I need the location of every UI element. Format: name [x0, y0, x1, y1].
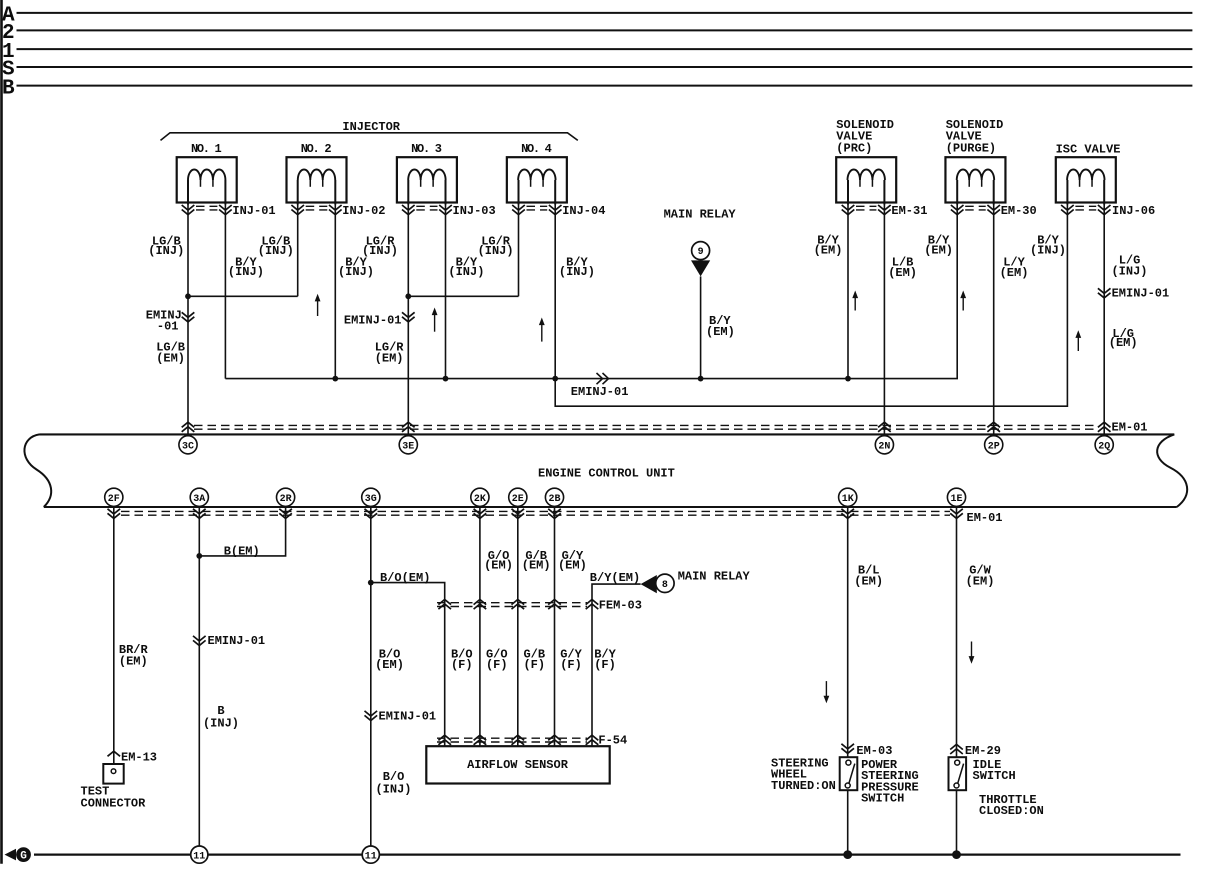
wire B/Y injector3 to bus: [445, 205, 447, 379]
connector INJ-06: [1061, 205, 1074, 210]
svg-text:2E: 2E: [512, 494, 524, 505]
main relay source circle 9: [692, 242, 710, 260]
connector EMINJ-01 on B/O wire: [365, 711, 378, 716]
svg-text:TURNED:ON: TURNED:ON: [771, 779, 836, 793]
svg-text:(INJ): (INJ): [203, 716, 239, 730]
connector EM-30: [951, 205, 964, 210]
svg-text:(EM): (EM): [706, 325, 735, 339]
svg-text:CONNECTOR: CONNECTOR: [81, 796, 147, 810]
connector INJ-03: [402, 205, 415, 210]
svg-text:INJ-01: INJ-01: [232, 204, 275, 218]
svg-text:(PRC): (PRC): [836, 142, 872, 156]
connector chevron 2K: [474, 509, 487, 514]
wire B/Y from main relay 8 to airflow sensor: [592, 584, 641, 746]
direction arrow injector3: [434, 314, 436, 332]
connector EMINJ-01 on LG/R wire: [402, 312, 415, 317]
wire B/Y injector4 to bus: [554, 205, 556, 379]
connector chevron 2R: [279, 509, 292, 514]
injector NO.2 coil: [287, 157, 347, 202]
ISC valve leads: [1066, 180, 1068, 205]
wire B from pin 3A to ground 11: [198, 507, 200, 846]
svg-text:EMINJ-01: EMINJ-01: [379, 709, 437, 723]
wire BR/R from pin 2F to test connector: [113, 507, 115, 764]
solenoid valve PRC coil: [836, 157, 896, 202]
svg-text:ENGINE CONTROL UNIT: ENGINE CONTROL UNIT: [538, 467, 675, 481]
svg-text:2N: 2N: [878, 441, 890, 452]
svg-text:NO. 2: NO. 2: [301, 142, 332, 156]
wire B/Y from main relay 9: [700, 276, 702, 378]
wire L/G ISC to ECU pin 2Q: [1103, 205, 1105, 435]
svg-text:(INJ): (INJ): [228, 265, 264, 279]
direction arrow ISC: [1077, 336, 1079, 351]
wire LG/B injector2 down: [297, 205, 299, 297]
wire B/Y(INJ) injector4 to ISC valve: [555, 205, 1067, 407]
svg-text:EM-01: EM-01: [1112, 421, 1148, 435]
svg-text:8: 8: [662, 580, 668, 591]
connector chevron EM-01 1E: [950, 509, 963, 514]
svg-text:(EM): (EM): [558, 559, 587, 573]
svg-text:11: 11: [365, 851, 377, 862]
wire switch to ground: [847, 790, 849, 854]
svg-text:EMINJ-01: EMINJ-01: [571, 385, 629, 399]
svg-text:CLOSED:ON: CLOSED:ON: [979, 804, 1044, 818]
direction arrow PRC: [854, 297, 856, 311]
injector NO.3 coil: [397, 157, 457, 202]
airflow sensor box: [426, 746, 609, 783]
svg-text:(INJ): (INJ): [362, 244, 398, 258]
wire LG/R injector3 to ECU pin 3E: [407, 205, 409, 435]
wire B/Y injector1 to bus: [224, 205, 226, 379]
ECU pin 2N: [875, 436, 893, 454]
svg-text:(INJ): (INJ): [559, 265, 595, 279]
ECU pin 2B: [545, 488, 563, 506]
svg-text:(EM): (EM): [854, 575, 883, 589]
svg-text:(F): (F): [523, 658, 545, 672]
svg-text:EMINJ-01: EMINJ-01: [344, 314, 402, 328]
injector NO.4 leads: [518, 180, 520, 205]
ECU pin 2Q: [1095, 436, 1113, 454]
ECU pin 2P: [985, 436, 1003, 454]
svg-text:(EM): (EM): [1109, 336, 1138, 350]
wire joining injector2 to injector1 LG/B: [188, 295, 298, 297]
svg-text:(INJ): (INJ): [448, 265, 484, 279]
main relay 8 triangle: [641, 575, 657, 593]
B/Y(EM) bus wire: [225, 205, 957, 379]
connector EMINJ-01 on B/Y bus: [597, 373, 603, 384]
direction arrow G/W: [971, 642, 973, 658]
svg-text:1K: 1K: [842, 494, 854, 505]
ECU pin 3E: [399, 436, 417, 454]
svg-text:(EM): (EM): [924, 243, 953, 257]
connector chevron 1K: [841, 509, 854, 514]
connector INJ-04: [512, 205, 525, 210]
solenoid valve PRC leads: [847, 180, 849, 205]
connector EMINJ-01 on L/G wire: [1098, 288, 1111, 293]
connector INJ-02: [291, 205, 304, 210]
ECU bottom connector strip dashes: [121, 510, 950, 512]
wire LG/R injector4 down: [518, 205, 520, 297]
wire G/W pin 1E to idle switch: [956, 507, 958, 757]
connector chevron 3A: [193, 509, 206, 514]
wire B/O from pin 3G to ground 11: [370, 507, 372, 846]
wire G/Y pin 2B to airflow sensor: [554, 507, 556, 746]
svg-text:(EM): (EM): [375, 351, 404, 365]
ECU pin 2F: [105, 488, 123, 506]
wire G/B pin 2E to airflow sensor: [517, 507, 519, 746]
svg-text:EMINJ-01: EMINJ-01: [1112, 286, 1170, 300]
wire L/B PRC to ECU pin 2N: [883, 205, 885, 435]
connector EM-29: [950, 744, 963, 749]
svg-text:9: 9: [698, 247, 704, 258]
ground symbol G: [5, 849, 17, 861]
svg-text:EM-01: EM-01: [967, 511, 1003, 525]
svg-text:(F): (F): [560, 658, 582, 672]
direction arrow PURGE: [962, 297, 964, 311]
svg-text:SWITCH: SWITCH: [973, 769, 1016, 783]
ground bus wire: [34, 853, 1181, 855]
left page border: [0, 0, 3, 864]
svg-text:EM-13: EM-13: [121, 751, 157, 765]
svg-text:(EM): (EM): [119, 654, 148, 668]
svg-text:11: 11: [193, 851, 205, 862]
svg-text:2Q: 2Q: [1098, 441, 1110, 452]
svg-text:(F): (F): [451, 658, 473, 672]
svg-text:EM-29: EM-29: [965, 744, 1001, 758]
solenoid valve PURGE leads: [956, 180, 958, 205]
svg-text:(F): (F): [594, 658, 616, 672]
main relay source triangle: [691, 260, 710, 276]
direction arrow injector4: [541, 324, 543, 342]
svg-text:(INJ): (INJ): [258, 244, 294, 258]
svg-text:B/O(EM): B/O(EM): [380, 571, 430, 585]
connector chevron EM-01 2Q: [1098, 422, 1111, 427]
ECU pin 2E: [509, 488, 527, 506]
svg-text:B: B: [2, 77, 15, 100]
main relay 8 circle: [656, 574, 674, 592]
top reference bus line 1: [17, 48, 1193, 50]
svg-text:(EM): (EM): [522, 559, 551, 573]
junction B(EM): [196, 553, 202, 559]
svg-text:ISC VALVE: ISC VALVE: [1056, 143, 1121, 157]
connector chevron 2P: [987, 422, 1000, 427]
svg-text:G: G: [20, 851, 27, 863]
connector INJ-01: [182, 205, 195, 210]
top reference bus line 2: [17, 29, 1193, 31]
svg-text:FEM-03: FEM-03: [599, 599, 642, 613]
wire B/Y injector2 to bus: [334, 205, 336, 379]
svg-text:3A: 3A: [193, 494, 205, 505]
junction B/Y inj4: [552, 376, 558, 382]
svg-text:INJ-02: INJ-02: [342, 204, 385, 218]
ECU pin 1E: [947, 488, 965, 506]
svg-text:(INJ): (INJ): [375, 782, 411, 796]
junction LG/R: [405, 293, 411, 299]
power steering pressure switch: [840, 757, 858, 790]
connector chevron 2E: [512, 509, 525, 514]
connector chevron 3G: [365, 509, 378, 514]
injector NO.3 leads: [407, 180, 409, 205]
ECU body right torn edge: [1157, 434, 1187, 507]
svg-text:INJ-04: INJ-04: [562, 204, 605, 218]
svg-text:EM-30: EM-30: [1001, 204, 1037, 218]
top reference bus line B: [17, 85, 1193, 87]
ECU body left torn edge: [24, 434, 51, 507]
wire LG/B injector1 to ECU pin 3C: [187, 205, 189, 435]
svg-text:(INJ): (INJ): [338, 265, 374, 279]
ECU body top border: [40, 433, 1175, 435]
ground junction 1E: [952, 850, 961, 859]
connector chevron 2B: [548, 509, 561, 514]
svg-text:(EM): (EM): [1000, 266, 1029, 280]
idle switch: [949, 757, 967, 790]
junction B/Y inj2: [332, 376, 338, 382]
svg-text:SWITCH: SWITCH: [861, 792, 904, 806]
svg-text:1E: 1E: [950, 494, 962, 505]
junction B/Y main relay: [698, 376, 704, 382]
svg-text:B/Y(EM): B/Y(EM): [590, 571, 640, 585]
wire B/L pin 1K to power steering switch: [847, 507, 849, 757]
svg-text:INJ-06: INJ-06: [1112, 204, 1155, 218]
svg-text:(F): (F): [486, 658, 508, 672]
svg-text:NO. 1: NO. 1: [191, 142, 222, 156]
svg-text:(EM): (EM): [156, 351, 185, 365]
svg-text:(EM): (EM): [375, 658, 404, 672]
wire B(EM) pin 3A to pin 2R: [199, 507, 285, 556]
junction B/Y PRC valve: [845, 376, 851, 382]
svg-text:NO. 3: NO. 3: [411, 142, 442, 156]
ground junction 1K: [843, 850, 852, 859]
svg-text:2R: 2R: [280, 494, 292, 505]
ground point 11 right: [362, 846, 379, 863]
direction arrow injector2: [317, 300, 319, 316]
svg-text:INJ-03: INJ-03: [453, 204, 496, 218]
ECU top connector strip dashes: [194, 424, 1098, 426]
svg-text:(INJ): (INJ): [1111, 265, 1147, 279]
top reference bus line S: [17, 66, 1193, 68]
connector EM-03: [841, 744, 854, 749]
connector EMINJ-01 on B wire: [193, 636, 206, 641]
svg-text:3G: 3G: [365, 494, 377, 505]
ECU body bottom border: [44, 506, 1177, 508]
connector F-54 strip: [437, 737, 587, 739]
connector chevron 3C: [182, 422, 195, 427]
svg-text:(INJ): (INJ): [1030, 243, 1066, 257]
svg-text:2F: 2F: [108, 494, 120, 505]
ECU pin 2R: [277, 488, 295, 506]
wire G/O pin 2K to airflow sensor: [479, 507, 481, 746]
svg-text:AIRFLOW SENSOR: AIRFLOW SENSOR: [467, 758, 569, 772]
svg-text:3C: 3C: [182, 441, 194, 452]
injector NO.1 coil: [177, 157, 237, 202]
wire PRC left lead to B/Y bus: [847, 205, 849, 379]
ECU pin 3A: [190, 488, 208, 506]
svg-text:MAIN RELAY: MAIN RELAY: [678, 570, 751, 584]
ECU pin 2K: [471, 488, 489, 506]
injector NO.1 leads: [187, 180, 189, 205]
svg-text:(EM): (EM): [484, 559, 513, 573]
ground point 11 left: [191, 846, 208, 863]
injector NO.4 coil: [507, 157, 567, 202]
svg-text:3E: 3E: [402, 441, 414, 452]
connector chevron 2F: [108, 509, 121, 514]
svg-text:(EM): (EM): [814, 243, 843, 257]
connector chevron 2N: [878, 422, 891, 427]
svg-text:EM-03: EM-03: [856, 744, 892, 758]
junction B/Y inj3: [443, 376, 449, 382]
svg-text:B(EM): B(EM): [224, 544, 260, 558]
svg-text:(INJ): (INJ): [148, 244, 184, 258]
svg-text:2P: 2P: [988, 441, 1000, 452]
wire joining injector4 to injector3 LG/R: [408, 295, 518, 297]
connector chevron 3E: [402, 422, 415, 427]
injector NO.2 leads: [297, 180, 299, 205]
svg-text:2K: 2K: [474, 494, 486, 505]
svg-text:EMINJ-01: EMINJ-01: [208, 634, 266, 648]
test connector box: [103, 764, 123, 784]
wire B/O(EM) jog to airflow sensor: [371, 583, 445, 747]
svg-text:(EM): (EM): [888, 266, 917, 280]
svg-text:(EM): (EM): [966, 575, 995, 589]
connector FEM-03 strip: [437, 602, 587, 604]
svg-text:2B: 2B: [548, 494, 560, 505]
wire idle switch to ground: [956, 790, 958, 854]
svg-text:(INJ): (INJ): [478, 244, 514, 258]
svg-text:MAIN RELAY: MAIN RELAY: [664, 207, 737, 221]
ECU pin 3C: [179, 436, 197, 454]
junction LG/B: [185, 293, 191, 299]
svg-text:EM-31: EM-31: [891, 204, 927, 218]
ECU pin 1K: [839, 488, 857, 506]
direction arrow B/L: [825, 681, 827, 697]
junction B/O(EM): [368, 580, 374, 586]
svg-text:INJECTOR: INJECTOR: [342, 120, 400, 134]
svg-text:-01: -01: [157, 320, 179, 334]
svg-text:(PURGE): (PURGE): [946, 142, 996, 156]
solenoid valve PURGE coil: [945, 157, 1005, 202]
connector EM-13: [108, 751, 121, 756]
ECU pin 3G: [362, 488, 380, 506]
top reference bus line A: [17, 12, 1193, 14]
ISC valve coil: [1056, 157, 1116, 202]
INJECTOR group brace: [161, 133, 578, 141]
connector EM-31: [842, 205, 855, 210]
connector EMINJ-01 on LG/B wire: [182, 312, 195, 317]
wire L/Y PURGE to ECU pin 2P: [993, 205, 995, 435]
svg-text:NO. 4: NO. 4: [521, 142, 552, 156]
